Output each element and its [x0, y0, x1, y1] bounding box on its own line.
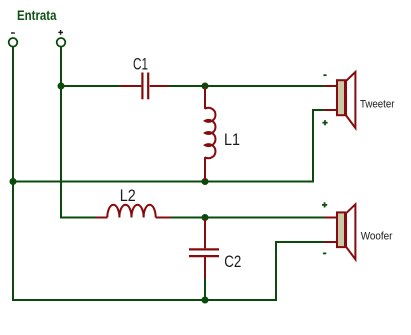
wire L2 to woofer plus [170, 217, 324, 219]
wire negative branch to tweeter plus [13, 110, 324, 182]
terminal J1 negative input [9, 33, 18, 47]
inductor L2 [96, 205, 171, 218]
speaker LS2 woofer [324, 204, 355, 259]
woofer plus pin mark [322, 202, 327, 207]
capacitor C2 [189, 219, 219, 279]
svg-text:Woofer: Woofer [361, 230, 393, 242]
wire positive input down to low-pass branch [61, 47, 97, 218]
capacitor C1 [120, 73, 169, 100]
svg-text:C1: C1 [133, 56, 148, 74]
wire negative rail left/bottom to woofer minus [13, 47, 324, 301]
woofer minus pin mark [323, 252, 326, 254]
svg-text:C2: C2 [224, 253, 241, 271]
tweeter minus pin mark [323, 74, 326, 76]
junction L2 output / C2 top [202, 214, 209, 221]
svg-text:L1: L1 [224, 131, 240, 149]
svg-text:Entrata: Entrata [17, 8, 57, 23]
wire C2 bottom to negative rail [204, 278, 206, 300]
junction negative rail left [10, 178, 17, 185]
junction L1 bottom on negative branch [202, 178, 209, 185]
svg-text:Tweeter: Tweeter [360, 99, 395, 111]
inductor L1 [205, 87, 215, 181]
junction positive at C1 input [58, 83, 65, 90]
junction C2 bottom on negative rail [202, 297, 209, 304]
terminal J2 positive input [57, 30, 66, 47]
tweeter plus pin mark [322, 120, 327, 125]
speaker LS1 tweeter [324, 72, 355, 128]
wire C1 to tweeter minus [169, 85, 325, 87]
svg-text:L2: L2 [120, 187, 136, 205]
junction C1 output / L1 top [202, 83, 209, 90]
wire positive to C1 [61, 85, 121, 87]
